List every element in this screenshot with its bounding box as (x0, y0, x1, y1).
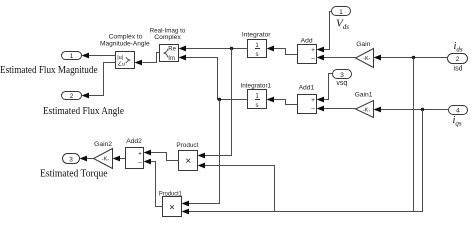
block Real-Imag to Complex (150, 27, 186, 62)
wire iqs inport to Gain1 input (374, 107, 449, 113)
wire Add1 output to Integrator1 input (267, 97, 298, 105)
wire riser to Product input 2 (198, 163, 275, 212)
svg-text:Add2: Add2 (126, 138, 142, 145)
block Add1 (298, 84, 317, 113)
svg-text:Estimated Torque: Estimated Torque (40, 169, 108, 180)
inport 2 isd (448, 54, 468, 64)
svg-text:Add: Add (301, 37, 313, 44)
svg-text:1: 1 (339, 9, 343, 16)
svg-text:–: – (311, 55, 315, 62)
svg-text:1: 1 (70, 53, 74, 60)
inport 3 vsq (333, 70, 352, 79)
block Product (176, 142, 198, 171)
junction on Integrator1 output (218, 98, 221, 101)
gain Gain1 (355, 91, 374, 117)
gain Gain (356, 41, 374, 68)
wire Product output to Add2 plus input (144, 150, 179, 161)
svg-text:–: – (138, 159, 142, 166)
svg-text:3: 3 (69, 156, 73, 163)
svg-text:+: + (311, 47, 315, 54)
svg-text:Product: Product (176, 142, 198, 149)
inport 1 Vds (332, 7, 351, 17)
gain Gain2 (94, 141, 113, 169)
wire Add output to Integrator input (267, 46, 298, 55)
block Add2 (126, 138, 144, 169)
block Add (298, 37, 317, 63)
wire vsq inport to Add1 plus input (317, 74, 333, 103)
svg-text:Integrator: Integrator (242, 32, 271, 39)
wire Gain2 output to outport 3 (80, 156, 94, 162)
svg-text:Complex: Complex (154, 34, 181, 41)
svg-text:-K-: -K- (102, 157, 110, 163)
wire Vds inport to Add plus input (317, 12, 332, 53)
wire Re net: Integrator output to RI2C Re input (179, 46, 248, 52)
svg-text:vsq: vsq (336, 80, 347, 87)
svg-text:Complex to: Complex to (109, 33, 143, 40)
svg-text:s: s (256, 52, 259, 58)
wire C2MA input from RI2C output (135, 53, 160, 66)
svg-text:isd: isd (454, 66, 463, 73)
svg-text:Gain: Gain (356, 41, 370, 48)
wire Product1 output to Add2 minus input (144, 159, 163, 207)
svg-text:×: × (169, 202, 175, 213)
svg-text:2: 2 (70, 93, 74, 100)
block Product1 (159, 190, 182, 216)
wire Re branch down to Product input 1 (198, 49, 232, 159)
wire isd branch down (413, 58, 415, 212)
outport 1 (62, 52, 82, 61)
wire isd inport to Gain input (374, 55, 448, 61)
block Integrator (242, 32, 271, 59)
junction on isd net (412, 56, 415, 59)
svg-text:+: + (311, 97, 315, 104)
wire Gain1 output to Add1 minus input (317, 106, 356, 112)
svg-text:–: – (311, 106, 315, 113)
svg-text:Integrator1: Integrator1 (241, 82, 272, 89)
svg-text:Estimated Flux Angle: Estimated Flux Angle (43, 106, 125, 117)
svg-text:∠u: ∠u (117, 61, 125, 68)
svg-text:-K-: -K- (363, 56, 371, 62)
svg-text:Product1: Product1 (159, 190, 182, 197)
outport 2 (62, 92, 82, 101)
svg-text:×: × (185, 156, 191, 167)
inport 4 iqs (449, 106, 468, 115)
svg-text:Estimated Flux Magnitude: Estimated Flux Magnitude (0, 65, 98, 76)
svg-text:2: 2 (456, 56, 460, 63)
wire Im branch down to Product1 input 1 (182, 100, 220, 207)
wire port2 from C2MA angle output (82, 63, 116, 99)
svg-text:3: 3 (340, 72, 344, 79)
outport 3 (63, 154, 80, 164)
wire iqs branch down and across to Product1 input 2 (182, 110, 423, 215)
svg-text:|u|: |u| (117, 55, 123, 61)
svg-text:4: 4 (456, 108, 460, 115)
junction on iqs net (421, 108, 424, 111)
svg-text:Gain2: Gain2 (94, 141, 112, 148)
wire Im net: Integrator1 output up to RI2C Im input (179, 55, 248, 100)
svg-text:Im: Im (168, 56, 175, 62)
svg-text:Magnitude-Angle: Magnitude-Angle (100, 40, 150, 47)
svg-text:+: + (138, 150, 142, 157)
block Integrator1 (241, 82, 272, 109)
svg-text:-K-: -K- (363, 107, 371, 113)
wire port1 from C2MA |u| output (82, 53, 116, 59)
svg-text:Gain1: Gain1 (355, 91, 373, 98)
svg-text:Add1: Add1 (299, 84, 315, 91)
block Complex to Magnitude-Angle (100, 33, 150, 68)
wire Gain output to Add minus input (317, 55, 356, 61)
svg-text:Re: Re (168, 47, 176, 53)
junction on Re net (230, 47, 233, 50)
wire Add2 output to Gain2 input (113, 156, 126, 162)
svg-text:s: s (256, 103, 259, 109)
